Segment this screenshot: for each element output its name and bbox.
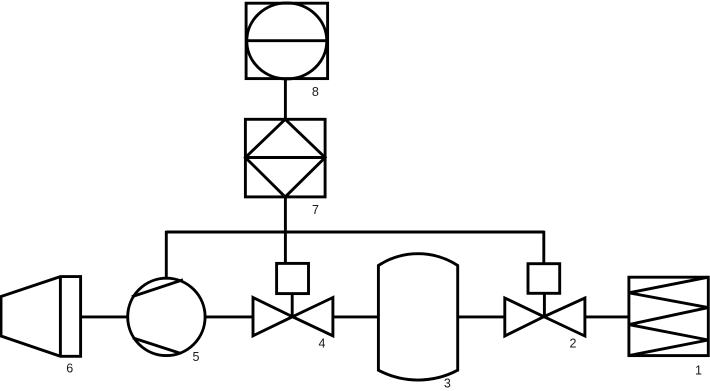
valve V2 (bowtie) [505, 298, 585, 336]
wire valve 4 to vessel 3 [333, 315, 379, 318]
svg-text:7: 7 [312, 203, 319, 217]
wire header down to pump 5 [165, 231, 168, 279]
wire valve 2 to heater 1 [585, 315, 630, 318]
instrument U8 (circle indicator in square) [246, 3, 328, 79]
svg-text:8: 8 [312, 85, 319, 99]
wire header down to valve 2 actuator [542, 231, 545, 264]
actuator square of valve 4 [277, 263, 309, 317]
wire vessel 3 to valve 2 [458, 315, 505, 318]
vessel 3 [378, 254, 457, 380]
svg-text:5: 5 [193, 350, 200, 364]
actuator square of valve 2 [528, 264, 560, 317]
svg-text:4: 4 [319, 337, 326, 351]
heater / element 1 (square with zigzag) [629, 277, 708, 355]
header wire (horizontal branch) [166, 231, 544, 234]
svg-text:2: 2 [570, 337, 577, 351]
pump 5 (circle with chords) [128, 278, 205, 355]
valve V4 (bowtie) [253, 298, 333, 336]
wire 6 to 5 [81, 315, 129, 318]
wire 5 to valve 4 [206, 315, 253, 318]
filter unit 7 (diamond in square) [245, 119, 325, 197]
cone / outlet 6 [1, 277, 81, 357]
wire from 7 down through header to valve 4 actuator [284, 197, 287, 264]
svg-text:6: 6 [66, 361, 73, 375]
wire from 8 to 7 [284, 79, 287, 120]
svg-text:1: 1 [695, 363, 702, 377]
svg-text:3: 3 [444, 377, 451, 391]
